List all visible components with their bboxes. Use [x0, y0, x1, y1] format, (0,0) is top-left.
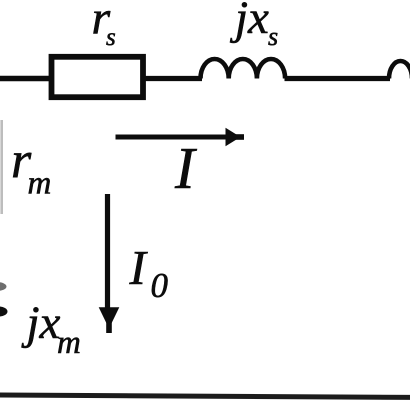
svg-text:jx: jx: [229, 0, 269, 44]
inductor jx_r (partial, cut at right edge): [389, 61, 410, 78]
current arrow I: [116, 135, 231, 140]
svg-text:I: I: [129, 240, 149, 295]
svg-text:m: m: [57, 325, 81, 361]
svg-text:jx: jx: [21, 297, 61, 349]
svg-text:s: s: [106, 24, 116, 51]
bottom bus wire: [0, 395, 410, 397]
inductor jx_s: [201, 59, 286, 79]
svg-text:s: s: [268, 22, 278, 51]
current arrow I0: [105, 194, 110, 309]
inductor jx_m (partial coil tips, cut at left edge): [0, 282, 7, 291]
wire resistor to inductor: [143, 76, 202, 81]
svg-text:I: I: [174, 135, 197, 201]
svg-text:0: 0: [151, 266, 169, 305]
wire left of resistor: [0, 76, 51, 82]
svg-text:m: m: [28, 166, 52, 202]
wire inductor to right: [285, 76, 391, 81]
resistor r_s: [52, 57, 144, 97]
resistor r_m (partial, cut at left edge): [0, 120, 3, 214]
